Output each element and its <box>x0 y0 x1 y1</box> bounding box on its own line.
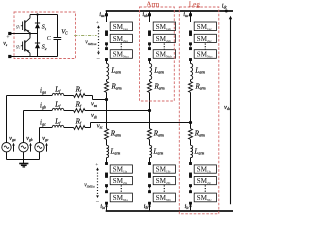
SM box SMNla <box>110 193 132 202</box>
node pad <box>105 162 108 165</box>
wire <box>149 139 151 145</box>
wire to jog <box>85 127 91 129</box>
inductor Lf phase c <box>52 125 64 127</box>
wire <box>149 80 151 82</box>
wire <box>106 80 108 82</box>
node pad <box>105 47 108 50</box>
node pads <box>105 173 108 176</box>
ac source v_gc <box>35 143 44 152</box>
wire: phase b grid line <box>24 110 53 112</box>
node pads <box>189 30 192 33</box>
wire <box>106 60 108 64</box>
wire <box>190 139 192 145</box>
node pad <box>148 13 151 16</box>
node pad <box>105 13 108 16</box>
voltage arrow for v_gb <box>30 145 32 152</box>
inductor Lf phase b <box>52 108 64 110</box>
SM box SM1ua <box>110 22 132 31</box>
node pad <box>189 47 192 50</box>
inductor L_arm lower b <box>150 145 152 157</box>
SM box SM2uc <box>194 34 216 42</box>
wire <box>64 95 74 97</box>
node pad <box>189 162 192 165</box>
SM box SM2ub <box>153 34 175 42</box>
resistor R_arm upper a <box>105 82 109 93</box>
SM box SM2ua <box>110 34 132 42</box>
node pads <box>148 173 151 176</box>
Leg dashed box <box>179 7 219 214</box>
wire to DC- rail <box>190 203 192 211</box>
green dash-dot link from SM detail to arm stack <box>74 35 96 37</box>
capacitor C <box>54 37 62 39</box>
wire: phase a grid line <box>7 95 53 97</box>
node N: SM negative terminal <box>8 55 11 58</box>
wire: from DC+ rail <box>149 11 151 22</box>
wire to midpoint <box>149 92 151 110</box>
wire: dotted continuation <box>190 45 192 47</box>
wire: from DC+ rail <box>190 11 192 22</box>
svg-text:−: − <box>96 199 100 206</box>
junction dots <box>29 32 31 34</box>
svg-text:+: + <box>95 162 98 168</box>
wire: source a riser <box>6 96 8 143</box>
SM box SM2la <box>110 177 132 185</box>
wire: source common bus <box>7 159 40 161</box>
SM box SM2lb <box>153 177 175 185</box>
svg-text:−: − <box>96 56 100 63</box>
inductor L_arm upper a <box>107 64 109 80</box>
node pad <box>105 58 108 61</box>
node pad <box>189 190 192 193</box>
SM box SMNlc <box>194 193 216 202</box>
svg-text:Arm: Arm <box>146 0 160 8</box>
wire: from DC+ rail <box>106 11 108 22</box>
wire: source b bottom stub <box>23 152 25 160</box>
node pads <box>105 30 108 33</box>
node pad <box>148 190 151 193</box>
resistor Rf phase c <box>74 126 85 130</box>
node pad <box>105 184 108 187</box>
wire: SM top rail <box>30 14 58 16</box>
wire: DC negative rail <box>106 210 233 212</box>
wire <box>64 127 74 129</box>
wire: jog <box>92 96 94 100</box>
resistor Rf phase b <box>74 109 85 113</box>
Arm dashed box <box>140 7 175 101</box>
wire <box>190 60 192 64</box>
transistor S2 lower IGBT <box>22 42 24 51</box>
wire: SM right rail upper <box>57 15 59 38</box>
wire: DC positive rail <box>106 10 233 12</box>
wire: ground stem <box>23 160 25 164</box>
wire <box>149 158 151 165</box>
node: phase b midpoint junction <box>148 109 151 112</box>
transistor S1 upper IGBT <box>22 22 24 31</box>
SM box SM2lc <box>194 177 216 185</box>
node pad <box>189 42 192 45</box>
node pad <box>148 184 151 187</box>
submodule detail dashed box <box>14 12 76 59</box>
dashed voltage arrow lower arm <box>97 170 99 196</box>
node pads <box>148 30 151 33</box>
wire: source c bottom stub <box>39 152 41 160</box>
current arrowhead <box>189 206 192 209</box>
ground <box>19 163 28 165</box>
inductor L_arm upper b <box>150 64 152 80</box>
node pad <box>148 47 151 50</box>
wire: dotted continuation <box>149 45 151 47</box>
wire <box>106 139 108 145</box>
resistor Rf phase a <box>74 94 85 98</box>
wire: SM mid rail <box>10 33 38 35</box>
node pad <box>105 202 108 205</box>
wire <box>190 80 192 82</box>
wire to leg a midpoint <box>93 99 107 101</box>
wire to DC- rail <box>149 203 151 211</box>
wire <box>190 123 192 129</box>
resistor R_arm lower c <box>189 129 193 140</box>
node pad <box>189 202 192 205</box>
node pad <box>189 184 192 187</box>
node pad <box>148 162 151 165</box>
svg-text:+: + <box>96 20 99 26</box>
resistor R_arm lower b <box>148 129 152 140</box>
SM box SM1lc <box>194 165 216 173</box>
SM box SMNuc <box>194 50 216 59</box>
wire: phase c grid line <box>40 127 53 129</box>
resistor R_arm upper b <box>148 82 152 93</box>
dashed voltage arrow upper arm <box>98 28 100 53</box>
wire: source c riser <box>39 128 41 143</box>
SM box SMNua <box>110 50 132 59</box>
node P: SM positive terminal <box>8 32 11 35</box>
wire to midpoint <box>190 92 192 122</box>
wire: dotted continuation <box>190 187 192 190</box>
resistor R_arm upper c <box>189 82 193 93</box>
node pad <box>189 13 192 16</box>
node: phase a midpoint junction <box>105 98 108 101</box>
wire: dotted continuation <box>106 45 108 47</box>
voltage arrow for v_ga <box>13 145 15 152</box>
node pad <box>105 42 108 45</box>
wire to DC- rail <box>106 203 108 211</box>
svg-text:Leg: Leg <box>189 0 201 8</box>
wire <box>106 158 108 165</box>
wire to midpoint <box>106 92 108 99</box>
wire <box>149 111 151 129</box>
wire <box>190 158 192 165</box>
node pad <box>148 42 151 45</box>
wire <box>64 110 74 112</box>
current arrowhead <box>148 206 151 209</box>
wire: SM bottom rail <box>10 56 58 58</box>
node pad <box>105 190 108 193</box>
SM box SM1ub <box>153 22 175 31</box>
wire: dotted continuation <box>149 187 151 190</box>
wire to jog <box>85 95 93 97</box>
wire: SM right rail lower <box>57 40 59 57</box>
wire: source b riser <box>23 111 25 143</box>
wire to leg c midpoint <box>91 122 191 124</box>
diode D1 with label S1 <box>37 15 39 34</box>
wire: source a bottom stub <box>6 152 8 160</box>
current arrowhead <box>105 206 108 209</box>
svg-text:g2: g2 <box>16 44 21 49</box>
inductor L_arm lower a <box>107 145 109 157</box>
wire <box>149 60 151 64</box>
SM box SMNlb <box>153 193 175 202</box>
ac source v_gb <box>19 143 28 152</box>
wire: jog <box>90 123 92 128</box>
node pad <box>189 58 192 61</box>
ac source v_ga <box>2 143 11 152</box>
node: phase c midpoint junction <box>189 121 192 124</box>
node: DC rail dot <box>225 10 228 13</box>
node pad <box>148 202 151 205</box>
wire <box>106 100 108 129</box>
node pads <box>189 173 192 176</box>
SM box SMNub <box>153 50 175 59</box>
vdc measurement arrow <box>230 19 232 204</box>
SM box SM1uc <box>194 22 216 31</box>
wire: dotted continuation <box>106 187 108 190</box>
svg-text:g1: g1 <box>16 24 21 29</box>
svg-text:C: C <box>47 35 52 42</box>
diode D2 with label S2 <box>37 34 39 57</box>
node pad <box>148 58 151 61</box>
resistor R_arm lower a <box>105 129 109 140</box>
SM box SM1lb <box>153 165 175 173</box>
inductor L_arm upper c <box>191 64 193 80</box>
inductor L_arm lower c <box>191 145 193 157</box>
wire to leg b midpoint <box>85 110 150 112</box>
voltage arrow for v_gc <box>46 145 48 152</box>
SM box SM1la <box>110 165 132 173</box>
inductor Lf phase a <box>52 93 64 95</box>
